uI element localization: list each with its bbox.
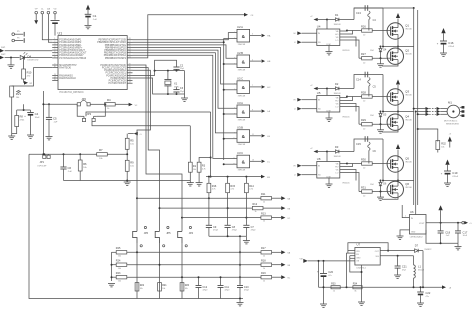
capacitor C13 <box>356 5 368 15</box>
wire U6 output <box>426 222 462 224</box>
svg-text:R23: R23 <box>116 272 121 275</box>
svg-text:10: 10 <box>233 138 235 140</box>
bootstrap diode D3 <box>326 145 354 158</box>
svg-text:1N4: 1N4 <box>370 184 373 186</box>
svg-text:R16: R16 <box>212 185 217 188</box>
svg-text:47u: 47u <box>426 296 429 298</box>
svg-text:R22: R22 <box>140 284 145 287</box>
connector J3 (left circle pin) <box>12 37 24 43</box>
svg-text:R30: R30 <box>361 158 366 162</box>
svg-text:IRL530: IRL530 <box>405 54 412 56</box>
potentiometer RV1 <box>10 86 22 99</box>
svg-text:C22: C22 <box>426 291 431 295</box>
resistor R15 <box>226 177 236 226</box>
wire phase to Q2 drain <box>397 112 399 115</box>
wire U1 RB3 to gate 5 input1 <box>133 53 238 133</box>
svg-text:D1: D1 <box>335 13 339 17</box>
wire riser JP6 down <box>136 244 138 299</box>
svg-text:C10: C10 <box>244 286 249 289</box>
ground (C22) <box>417 303 424 306</box>
svg-text:C12: C12 <box>203 286 208 289</box>
connector HIN (driver U8) <box>294 164 317 168</box>
wire <box>354 8 383 20</box>
capacitor under P4 <box>51 21 60 36</box>
inductor L1 <box>414 256 425 288</box>
wire C10 riser <box>239 236 241 284</box>
capacitor C9 <box>206 225 219 236</box>
resistor R18 <box>261 259 281 269</box>
svg-text:IR2101: IR2101 <box>343 50 351 52</box>
wire <box>17 109 31 111</box>
ground (C1) <box>85 25 92 28</box>
wire row 2 (R24-R18) <box>112 264 262 266</box>
connector (R5 top) <box>128 132 142 136</box>
svg-text:IRL530: IRL530 <box>405 95 412 97</box>
svg-text:15: 15 <box>54 79 56 81</box>
ground (RV1) <box>8 136 15 139</box>
wire <box>340 97 353 101</box>
AND gate U3:C <box>233 151 270 172</box>
svg-text:R8: R8 <box>20 115 24 119</box>
wire motor row A <box>413 108 426 110</box>
ground (D4) <box>377 57 384 67</box>
wire drain to +V <box>396 80 400 89</box>
svg-text:3k: 3k <box>354 290 356 292</box>
capacitor C-boot squiggle <box>368 139 377 164</box>
svg-text:Q2: Q2 <box>405 49 409 53</box>
connector (enable) <box>261 175 271 179</box>
power +V arrow (C16) <box>441 28 445 41</box>
svg-text:R25: R25 <box>116 247 121 250</box>
svg-text:8: 8 <box>234 113 235 115</box>
svg-text:R29: R29 <box>361 118 366 122</box>
MOSFET Q3 <box>387 89 413 105</box>
resistor R9 <box>125 153 134 181</box>
svg-text:HO: HO <box>335 34 338 36</box>
wire row 1 (R25-R17) <box>112 251 262 253</box>
resistor R12 <box>252 203 281 213</box>
wire phase to Q2 drain <box>397 47 399 49</box>
resistor R25 <box>116 247 127 257</box>
svg-text:1k: 1k <box>263 255 265 257</box>
svg-text:PC6/OSC1/CLKIN/RA7: PC6/OSC1/CLKIN/RA7 <box>59 54 84 57</box>
zener diode D6 <box>370 180 387 192</box>
wire phase bus C <box>417 10 419 205</box>
MOSFET Q2 <box>387 48 413 64</box>
resistor R5 <box>125 134 134 155</box>
svg-text:PC4/RA4/T0CKI/C1OUT: PC4/RA4/T0CKI/C1OUT <box>59 49 85 52</box>
capacitor C12 <box>196 276 208 298</box>
connector (clock out) <box>244 13 254 17</box>
wire <box>86 112 211 116</box>
wire riser JP5 down <box>159 244 161 299</box>
wire motor row C <box>417 113 426 115</box>
resistor R13 <box>261 212 281 222</box>
svg-text:R33: R33 <box>331 282 336 285</box>
wire U1 RB4 to gate 4 input1 <box>133 50 238 108</box>
svg-text:9: 9 <box>234 132 235 134</box>
wire U7 out to D7 <box>380 250 414 252</box>
wire <box>43 103 77 105</box>
wire <box>90 103 104 105</box>
power +V arrow (C19) <box>445 160 449 172</box>
wire <box>340 104 356 112</box>
wire U1 RB5 to gate 3 input1 <box>133 48 238 85</box>
wire +V rail <box>354 7 415 205</box>
svg-text:9: 9 <box>252 109 253 111</box>
wire <box>133 70 151 231</box>
AND gate U3:B <box>233 126 270 147</box>
svg-text:3: 3 <box>234 58 235 60</box>
svg-text:4.7k: 4.7k <box>212 189 216 191</box>
svg-text:10: 10 <box>54 66 56 68</box>
svg-text:R11: R11 <box>261 193 266 196</box>
capacitor C16 <box>437 41 455 53</box>
wire drain to +V <box>396 144 400 156</box>
resistor R3 <box>197 158 210 183</box>
svg-text:74HC08: 74HC08 <box>238 44 246 46</box>
svg-text:C13: C13 <box>356 11 361 15</box>
svg-text:PC3/RA3/AN3/VREF+: PC3/RA3/AN3/VREF+ <box>59 46 83 49</box>
svg-text:1: 1 <box>405 215 406 217</box>
capacitor C10 <box>237 277 249 298</box>
wire output row <box>319 286 443 288</box>
connector motor header J3 <box>426 107 448 116</box>
resistor R19 <box>261 272 281 282</box>
jumper JP1 <box>38 153 51 167</box>
wire bootstrap return <box>382 8 384 47</box>
svg-text:JP6: JP6 <box>144 232 149 235</box>
capacitor C19 <box>441 171 459 183</box>
svg-text:330uH: 330uH <box>418 270 424 272</box>
svg-text:C5: C5 <box>53 117 57 121</box>
gate driver U8 IR2101 <box>317 152 351 185</box>
ground (cap common) <box>243 236 250 244</box>
resistor R30 <box>347 158 388 170</box>
svg-text:R12: R12 <box>253 203 258 206</box>
svg-text:COM: COM <box>326 176 331 178</box>
connector (below R10) <box>24 81 33 85</box>
resistor R33 <box>331 282 340 292</box>
capacitor C8 <box>225 225 238 236</box>
svg-text:1: 1 <box>234 32 235 34</box>
svg-text:R20: R20 <box>185 284 190 287</box>
svg-text:U3:A: U3:A <box>237 101 243 105</box>
svg-text:SIG: SIG <box>376 256 380 258</box>
svg-text:D7: D7 <box>415 244 419 248</box>
svg-text:12: 12 <box>233 164 235 166</box>
svg-text:Q5: Q5 <box>405 156 409 160</box>
svg-text:RA6/OSC2/CLK: RA6/OSC2/CLK <box>59 77 76 80</box>
svg-text:PC0/RA0/AN0/CMP1: PC0/RA0/AN0/CMP1 <box>59 39 82 42</box>
wire U1 RB7 to gate 1 input1 <box>133 33 238 40</box>
resistor R23 <box>116 272 127 282</box>
svg-text:21: 21 <box>129 56 131 58</box>
svg-text:U8: U8 <box>317 157 321 161</box>
svg-text:HC: HC <box>267 87 271 89</box>
svg-text:10k: 10k <box>193 169 196 171</box>
capacitor C3 <box>173 87 184 94</box>
svg-text:U3:C: U3:C <box>237 151 243 155</box>
svg-text:10k: 10k <box>118 280 121 282</box>
ground (U6 left) <box>397 236 404 239</box>
wire <box>354 75 383 89</box>
svg-text:JP3: JP3 <box>87 112 92 116</box>
connector J2 (left circle pin) <box>12 31 24 37</box>
resistor R26 <box>347 25 388 37</box>
ground (left input) <box>8 57 15 69</box>
svg-text:PB0/RB0/INT/CMP1: PB0/RB0/INT/CMP1 <box>105 58 127 60</box>
svg-text:R27: R27 <box>361 52 366 56</box>
power +V arrow (sense) <box>448 134 452 148</box>
capacitor C17 <box>455 223 468 244</box>
svg-text:C17: C17 <box>463 230 468 234</box>
svg-text:LO: LO <box>336 40 339 42</box>
power +5 arrow (U6 out) <box>438 205 442 222</box>
LED D4 <box>20 52 52 62</box>
capacitor C20 <box>317 260 333 304</box>
wire <box>354 139 383 152</box>
wire rows left common <box>111 252 113 281</box>
svg-text:74HC08: 74HC08 <box>238 170 246 172</box>
svg-text:7: 7 <box>252 85 253 87</box>
capacitor C7 <box>243 225 256 236</box>
wire C2 top jog <box>155 60 177 70</box>
wire <box>340 170 356 181</box>
wire phase to Q2 drain <box>397 180 399 183</box>
svg-text:1k: 1k <box>263 280 265 282</box>
svg-text:DIODE LED: DIODE LED <box>28 60 39 62</box>
wire <box>92 122 190 126</box>
svg-text:VM: VM <box>300 258 303 260</box>
gate driver U4 IR2101 <box>317 20 351 53</box>
svg-text:1k: 1k <box>263 221 265 223</box>
svg-text:11: 11 <box>252 134 254 136</box>
wire row HB2 <box>159 207 253 209</box>
svg-text:Q4: Q4 <box>405 115 409 119</box>
resistor R31 <box>359 186 388 198</box>
svg-text:22pf: 22pf <box>180 68 184 70</box>
jumper JP3 <box>81 112 97 122</box>
wire <box>133 65 183 231</box>
svg-text:1N4: 1N4 <box>370 115 373 117</box>
connector (R19) <box>281 275 291 279</box>
svg-text:IRL530: IRL530 <box>405 187 412 189</box>
svg-text:C11: C11 <box>225 286 230 289</box>
svg-text:470pf: 470pf <box>213 230 218 232</box>
svg-text:C15: C15 <box>356 142 361 146</box>
svg-text:.1uF: .1uF <box>53 122 58 124</box>
wire <box>340 173 359 192</box>
wire U1 to R7 row (vertical) <box>42 91 44 155</box>
svg-text:1N4148: 1N4148 <box>334 24 342 26</box>
connector pin P4 (top header) <box>53 8 56 19</box>
svg-text:GND: GND <box>411 231 416 233</box>
svg-text:R4: R4 <box>107 98 111 102</box>
wire <box>29 153 97 155</box>
svg-text:HA: HA <box>267 35 271 38</box>
svg-text:U3:B: U3:B <box>237 126 243 130</box>
svg-text:10k: 10k <box>162 288 165 290</box>
wire row 3 (R23-R19) <box>112 276 262 278</box>
svg-text:PIC16C716_DIP/SOIC: PIC16C716_DIP/SOIC <box>60 91 84 94</box>
wire U7 left pins <box>348 251 362 273</box>
wire bootstrap return <box>382 75 384 112</box>
resistor R10 <box>22 57 32 83</box>
gate driver U5 IR2101 <box>317 89 351 119</box>
wire U6 gnd rail <box>426 230 458 247</box>
resistor R2 <box>188 126 196 183</box>
svg-text:X1: X1 <box>174 82 178 86</box>
svg-text:U6: U6 <box>410 210 414 214</box>
AND gate U2:B <box>234 51 271 72</box>
wire line A drop <box>210 112 212 178</box>
svg-text:JP5: JP5 <box>166 232 171 235</box>
svg-text:U2:A: U2:A <box>237 25 243 29</box>
wire crystal ground loop <box>184 71 186 98</box>
ground (bottom rail) <box>237 298 244 306</box>
crystal X1 <box>164 71 179 94</box>
wire ICSP-DAT to U1 pin <box>48 15 52 42</box>
MOSFET Q5 <box>387 156 413 172</box>
connector (R12) <box>281 206 291 210</box>
capacitor C5 <box>46 103 58 136</box>
svg-text:D3: D3 <box>335 145 339 149</box>
resistor R22 <box>135 283 145 291</box>
connector pin P3 (top header) <box>47 7 51 15</box>
wire U7 feedback loop <box>348 243 389 252</box>
svg-text:1k: 1k <box>263 268 265 270</box>
connector HIN (driver U4) <box>294 31 317 35</box>
resistor R16 <box>207 177 217 226</box>
svg-text:U2:C: U2:C <box>237 77 243 81</box>
svg-text:7: 7 <box>234 108 235 110</box>
connector (R18) <box>281 263 291 267</box>
svg-text:C16: C16 <box>448 41 454 45</box>
svg-text:.1uF: .1uF <box>68 171 73 173</box>
bootstrap diode D2 <box>326 82 354 95</box>
wire +V rail into U6 <box>415 205 417 215</box>
svg-text:LO: LO <box>336 172 339 174</box>
connector VIN (U7) <box>300 258 355 263</box>
ground (D5) <box>377 123 384 133</box>
svg-text:R17: R17 <box>261 247 266 250</box>
wire enable rail <box>206 176 261 178</box>
svg-text:1N4148: 1N4148 <box>334 93 342 95</box>
svg-text:C19: C19 <box>452 171 458 175</box>
wire Q2 source to ground <box>382 64 398 66</box>
ground (driver U5) <box>326 112 333 121</box>
svg-text:5: 5 <box>252 59 253 61</box>
connector +5 out <box>462 221 473 225</box>
svg-text:LVP/ICSP: LVP/ICSP <box>38 165 48 167</box>
svg-text:PB5/RB5/AN13/T1G: PB5/RB5/AN13/T1G <box>105 44 126 47</box>
jumper JP2 <box>77 97 90 106</box>
wire OSC1 rail <box>133 70 185 76</box>
svg-text:SENSORLESS: SENSORLESS <box>446 123 460 125</box>
wire tap to +5 line <box>23 104 25 111</box>
svg-text:HB: HB <box>267 61 271 63</box>
wire riser JP4 down <box>181 244 183 299</box>
resistor R20 <box>180 283 190 291</box>
resistor R34 <box>353 282 362 292</box>
svg-text:10k: 10k <box>441 146 444 148</box>
svg-text:R6: R6 <box>83 162 87 166</box>
svg-text:PC5/RA5/AN4/SS/C2OUT: PC5/RA5/AN4/SS/C2OUT <box>59 52 87 55</box>
svg-text:JP1: JP1 <box>40 160 45 164</box>
svg-text:74HC08: 74HC08 <box>238 144 246 146</box>
svg-text:.1uF: .1uF <box>93 19 98 21</box>
MOSFET Q6 <box>387 181 413 197</box>
ground (R2) <box>187 183 194 186</box>
svg-text:MOTOR BLDC: MOTOR BLDC <box>444 121 458 123</box>
svg-text:13: 13 <box>129 82 131 84</box>
svg-text:C1: C1 <box>93 14 97 18</box>
power +V arrow (driver U8) <box>310 148 327 153</box>
svg-text:R5: R5 <box>130 139 134 143</box>
motor M1 <box>444 100 464 125</box>
svg-text:R31: R31 <box>361 186 366 190</box>
wire cap common <box>209 235 247 237</box>
resistor R21 <box>158 283 168 291</box>
wire Q2 source to ground <box>382 198 398 200</box>
ground (driver U8) <box>326 178 333 187</box>
connector LIN (driver U5) <box>294 107 317 111</box>
wire phase bus B <box>415 111 417 206</box>
ground (U7) <box>358 302 365 305</box>
resistor R6 <box>78 153 87 180</box>
svg-text:R32: R32 <box>441 143 446 146</box>
wire <box>340 164 353 167</box>
svg-text:R18: R18 <box>261 259 266 262</box>
wire U7 sig line <box>380 255 413 257</box>
ground (R9) <box>124 181 131 186</box>
ground (X1) <box>181 98 188 101</box>
svg-text:470pf: 470pf <box>203 290 208 292</box>
svg-text:470pf: 470pf <box>232 230 237 232</box>
ground (U6 right) <box>455 247 462 250</box>
svg-text:2: 2 <box>234 38 235 40</box>
svg-text:74HC08: 74HC08 <box>238 95 246 97</box>
wire phase node <box>382 39 414 47</box>
MOSFET Q4 <box>387 114 413 130</box>
wire ICSP-CLK to U1 pin <box>42 15 52 40</box>
resistor R27 <box>359 52 388 64</box>
wire bootstrap return <box>382 139 384 181</box>
svg-text:47u: 47u <box>328 275 331 277</box>
connector (after R4) <box>129 103 138 107</box>
resistor R14 <box>245 177 255 226</box>
zener diode D5 <box>370 111 387 125</box>
svg-text:C4: C4 <box>35 112 39 116</box>
svg-text:PC2/RC2/CCP1/P1A: PC2/RC2/CCP1/P1A <box>104 69 126 72</box>
power +V arrow (driver U5) <box>310 85 327 90</box>
svg-text:VOUT: VOUT <box>419 223 425 225</box>
connector (R17) <box>281 250 291 254</box>
svg-text:10uF: 10uF <box>35 117 41 119</box>
svg-text:C18: C18 <box>445 230 450 234</box>
svg-text:R19: R19 <box>261 272 266 275</box>
svg-text:HO: HO <box>335 100 338 102</box>
svg-text:C6: C6 <box>68 166 72 170</box>
svg-text:10k: 10k <box>140 288 143 290</box>
jumper JP5 <box>155 226 171 247</box>
jumper JP4 <box>178 226 194 247</box>
svg-text:470uF: 470uF <box>452 176 459 178</box>
zener diode D4 <box>370 46 387 59</box>
svg-text:10k: 10k <box>118 268 121 270</box>
svg-text:C21: C21 <box>402 264 407 268</box>
